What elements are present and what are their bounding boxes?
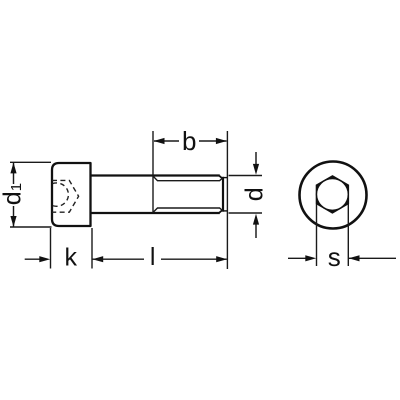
svg-text:k: k bbox=[64, 243, 77, 271]
dimension d1 line lower bbox=[13, 206, 15, 227]
thread start line / b left extension bbox=[152, 131, 154, 213]
svg-text:d1: d1 bbox=[0, 183, 27, 205]
dimension d arrowhead bottom bbox=[253, 214, 259, 225]
dimension l arrowhead left (at head) bbox=[92, 256, 103, 262]
k left extension line bbox=[50, 228, 52, 269]
dimension l arrowhead right bbox=[216, 256, 227, 262]
dimension k arrowhead bbox=[39, 256, 50, 262]
dimension b line right part bbox=[199, 140, 227, 142]
d1 bottom extension line bbox=[10, 226, 52, 228]
d1 top extension line bbox=[10, 161, 51, 163]
tip face bbox=[222, 177, 224, 212]
dimension s arrowhead left bbox=[305, 255, 316, 261]
tip stub bottom bbox=[223, 210, 227, 212]
k right extension line bbox=[91, 228, 93, 269]
dimension s arrowhead right bbox=[349, 255, 360, 261]
dimension s leader left bbox=[288, 257, 307, 259]
svg-text:l: l bbox=[150, 243, 156, 271]
d top extension line bbox=[229, 175, 262, 177]
shank top outline bbox=[91, 174, 220, 176]
hex socket hidden circle (dashed) bbox=[53, 183, 69, 206]
dimension b line left part bbox=[154, 140, 179, 142]
dimension l line left part bbox=[92, 258, 144, 260]
svg-text:s: s bbox=[328, 242, 341, 272]
shank bottom outline bbox=[91, 212, 220, 214]
dimension s leader right bbox=[349, 257, 396, 259]
s left extension line bbox=[316, 204, 318, 266]
dimension d arrowhead top bbox=[253, 164, 259, 175]
dimension b arrowhead left bbox=[154, 138, 165, 144]
right extension line (b, l) at bolt tip bbox=[226, 131, 228, 269]
dimension d1 arrowhead up bbox=[10, 163, 16, 174]
d bottom extension line bbox=[229, 212, 262, 214]
dimension k leader left bbox=[25, 258, 41, 260]
tip stub top bbox=[223, 177, 227, 179]
dimension d1 line upper bbox=[13, 163, 15, 184]
dimension d arrow bottom shaft bbox=[255, 224, 257, 238]
end view outer circle bbox=[300, 162, 367, 229]
svg-text:d: d bbox=[241, 187, 269, 201]
hex socket hidden hexagon (dashed) bbox=[52, 180, 79, 212]
end view hexagon (filled) bbox=[317, 176, 349, 213]
svg-text:b: b bbox=[182, 126, 196, 156]
end view socket circle bbox=[317, 179, 349, 211]
s right extension line bbox=[347, 204, 349, 266]
dimension l line right part bbox=[161, 258, 227, 260]
screw head side view bbox=[52, 163, 91, 226]
thread root bottom line bbox=[153, 208, 222, 212]
tip chamfer top bbox=[219, 176, 223, 179]
dimension b arrowhead right bbox=[216, 138, 227, 144]
thread root top line bbox=[153, 176, 222, 180]
dimension d1 arrowhead down bbox=[10, 216, 16, 227]
dimension d arrow top shaft bbox=[255, 152, 257, 166]
tip chamfer bottom bbox=[219, 210, 223, 213]
